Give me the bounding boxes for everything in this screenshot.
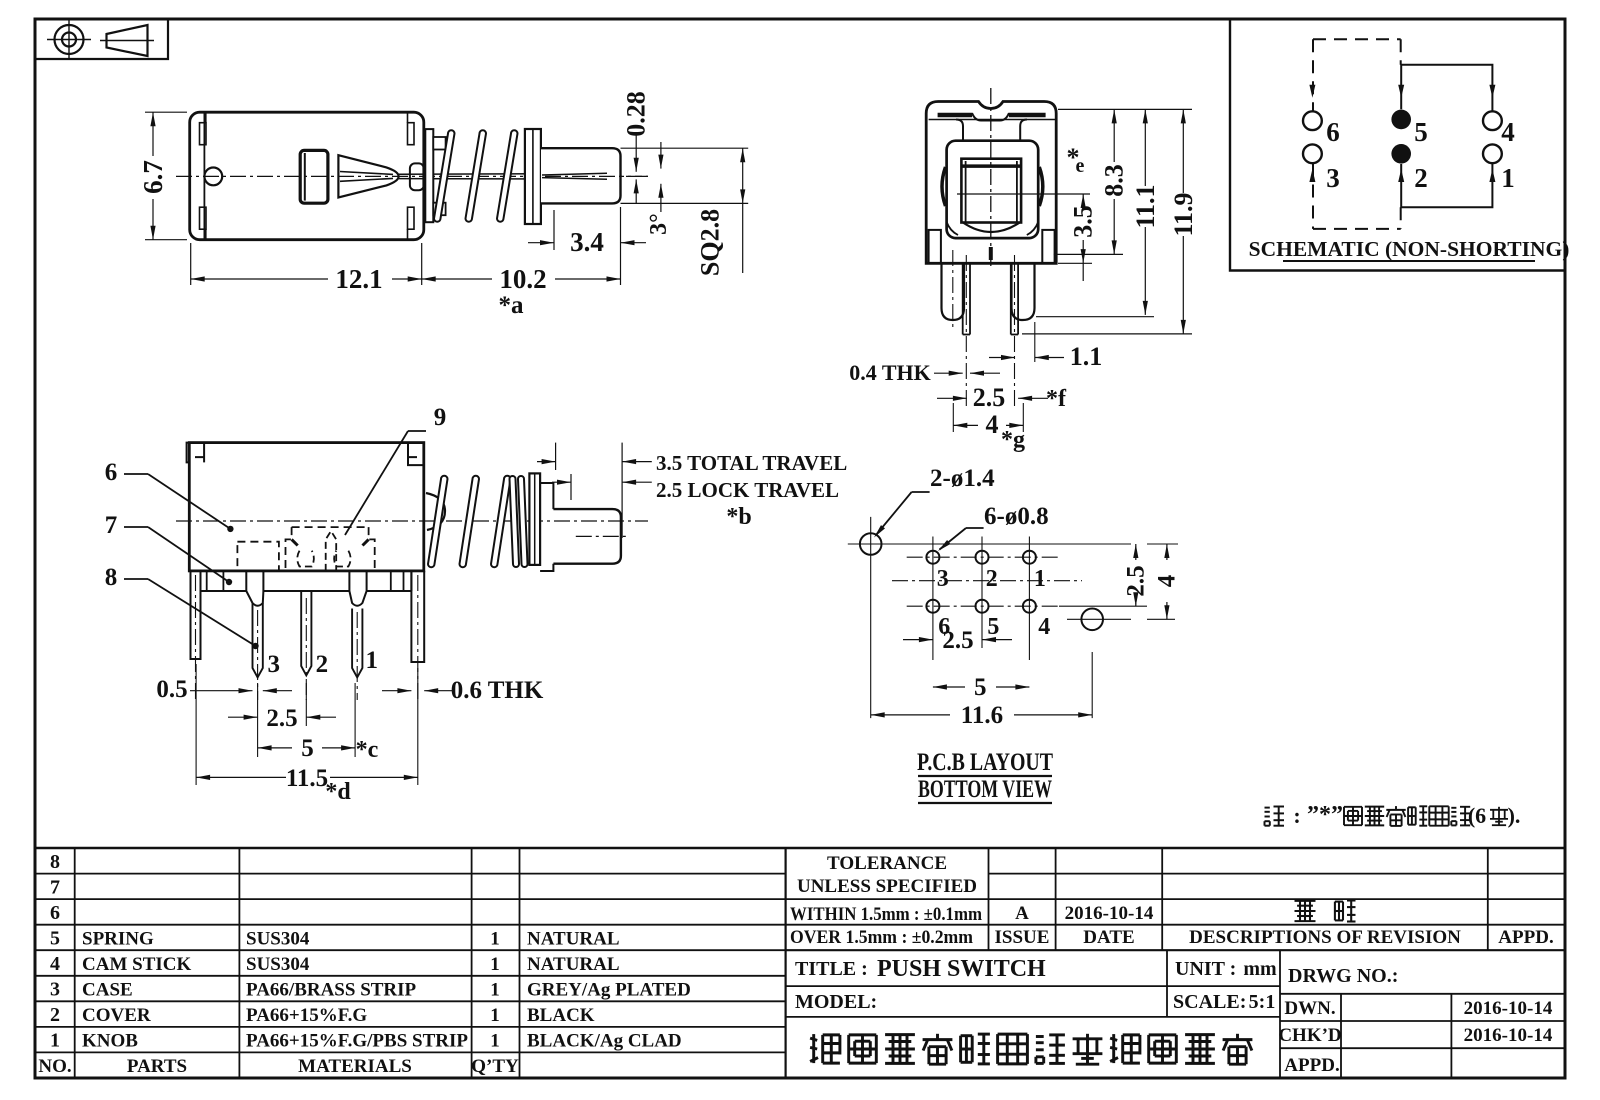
svg-text:*f: *f	[1046, 386, 1067, 412]
pcb: small holes row 2 (6,5,4)	[926, 600, 939, 613]
schematic dashed stem above pin 5	[1400, 39, 1402, 64]
svg-text:4: 4	[1501, 117, 1515, 147]
dim 11.5	[196, 776, 286, 778]
svg-text:GREY/Ag PLATED: GREY/Ag PLATED	[527, 980, 691, 1001]
svg-text:6: 6	[1326, 117, 1340, 147]
svg-text:2.5: 2.5	[973, 383, 1006, 412]
svg-text:A: A	[1015, 903, 1029, 924]
schematic wire pin5 to pin4 top	[1401, 65, 1492, 111]
dim 6.7 extension lines	[145, 111, 187, 113]
top view: shaft guide bracket	[410, 163, 424, 190]
side view: contact corner marks	[292, 539, 298, 545]
svg-text:(6: (6	[1468, 803, 1486, 828]
svg-text:e: e	[1076, 155, 1085, 177]
svg-text:mm: mm	[1243, 958, 1277, 980]
top view: case left wall line	[203, 112, 205, 240]
svg-text::: :	[1293, 803, 1300, 828]
pcb dim 5	[933, 686, 965, 688]
side view: top-left slot	[187, 443, 205, 463]
svg-text:3: 3	[50, 979, 60, 1001]
shaft top extension line	[621, 147, 749, 149]
pcb dim 4 vertical	[1166, 544, 1168, 560]
side view: right mounting post	[411, 571, 424, 662]
pcb dim 11.6	[871, 714, 950, 716]
svg-text:DRWG NO.:: DRWG NO.:	[1288, 965, 1398, 987]
dims below side view: extensions	[257, 683, 259, 757]
svg-text:0.4 THK: 0.4 THK	[849, 360, 931, 385]
dim 3.4 extension line	[553, 210, 555, 250]
dim 0.28 arrow lines	[635, 135, 637, 172]
front view: knob horizontal centerline	[957, 193, 1090, 195]
svg-text:*b: *b	[726, 504, 751, 530]
top view: cam stick needle lines	[399, 173, 607, 176]
svg-text:8: 8	[105, 564, 118, 591]
side view: hidden cam chamber dashed	[286, 527, 375, 571]
top view: cam stick cone	[338, 155, 398, 197]
top view: switch body case outline	[190, 112, 424, 240]
side view: pin 3	[253, 603, 263, 677]
schematic arrow into pin3	[1309, 169, 1315, 182]
pcb: row1 line	[907, 556, 1059, 558]
side view: foot at pin 1	[349, 571, 366, 606]
svg-text:2: 2	[1414, 163, 1428, 193]
svg-text:2016-10-14: 2016-10-14	[1464, 998, 1553, 1019]
svg-text:PARTS: PARTS	[127, 1056, 187, 1077]
svg-text:SCALE:: SCALE:	[1173, 991, 1246, 1013]
svg-text:DESCRIPTIONS OF REVISION: DESCRIPTIONS OF REVISION	[1189, 927, 1461, 948]
svg-text:ISSUE: ISSUE	[995, 927, 1050, 948]
svg-text:2.5 LOCK TRAVEL: 2.5 LOCK TRAVEL	[656, 478, 839, 502]
front view: bottom extension for 3.5	[1058, 262, 1092, 264]
svg-text:APPD.: APPD.	[1498, 927, 1553, 948]
svg-text:3°: 3°	[646, 213, 672, 235]
svg-text:PA66+15%F.G/PBS STRIP: PA66+15%F.G/PBS STRIP	[246, 1031, 468, 1052]
schematic pin 2 circle (filled)	[1391, 144, 1411, 164]
side view: foot at pin 3	[246, 571, 263, 606]
front view: top extension line	[1058, 108, 1192, 110]
svg-text:BLACK/Ag CLAD: BLACK/Ag CLAD	[527, 1031, 682, 1052]
schematic dashed switch body rectangle top edge	[1313, 38, 1401, 40]
top view: cam plate flange	[425, 129, 433, 222]
svg-text:”*”: ”*”	[1307, 802, 1343, 828]
schematic wire pin2 to pin1 bottom	[1401, 164, 1492, 208]
svg-text:3: 3	[1326, 163, 1340, 193]
schematic pin 5 circle (filled)	[1391, 110, 1411, 130]
side view: hidden contact dashed rect left	[237, 542, 279, 571]
dim SQ2.8 line	[742, 148, 744, 203]
front view: case side bulge arcs	[942, 167, 946, 206]
svg-text:1: 1	[490, 1005, 500, 1026]
side view: spring hook	[426, 493, 445, 530]
svg-text:3.5 TOTAL TRAVEL: 3.5 TOTAL TRAVEL	[656, 451, 847, 475]
svg-text:5: 5	[987, 614, 999, 640]
dim 3.5 total travel	[537, 461, 556, 463]
pcb: big hole left	[860, 533, 882, 555]
dim 10.2 line	[422, 278, 492, 280]
schematic arrow into pin6	[1309, 85, 1315, 98]
svg-text:CASE: CASE	[82, 980, 133, 1001]
dim 6.7 line	[152, 112, 154, 156]
unit/scale block	[1166, 950, 1168, 1017]
svg-text:BLACK: BLACK	[527, 1005, 595, 1026]
top view: spring coils	[434, 130, 455, 222]
side view: top-right slot	[408, 443, 424, 466]
dim 8.3 line	[1113, 109, 1115, 162]
svg-text:2016-10-14: 2016-10-14	[1065, 903, 1154, 924]
schematic arrow into pin4	[1489, 85, 1495, 98]
svg-text:7: 7	[50, 876, 60, 898]
dim 3.5 line (front)	[1082, 194, 1084, 205]
side view: knob (pushed)	[553, 509, 621, 564]
parts list row lines	[35, 873, 786, 875]
pcb: central dash-dot line	[892, 580, 1082, 582]
company name (hanzi)	[810, 1038, 817, 1040]
svg-text:10.2: 10.2	[499, 264, 546, 294]
top view: shaft centerline	[545, 175, 648, 177]
top view: corner slot top-left	[200, 123, 207, 145]
svg-text:*a: *a	[499, 292, 525, 319]
note: key dimension remark	[1265, 807, 1270, 809]
dim 4 line	[953, 424, 978, 426]
top view: horizontal centerline	[176, 175, 648, 177]
svg-text:9: 9	[434, 404, 447, 431]
svg-text:2: 2	[986, 566, 998, 592]
svg-text:*g: *g	[1001, 427, 1025, 453]
svg-text:KNOB: KNOB	[82, 1031, 138, 1052]
table outer edges	[35, 847, 1565, 849]
svg-text:MATERIALS: MATERIALS	[298, 1056, 412, 1077]
front view: body outline	[926, 102, 1056, 264]
pcb dim 2.5 horizontal	[903, 639, 933, 641]
front view: right pin	[1010, 263, 1012, 334]
projection symbol: cone side view	[107, 25, 148, 56]
schematic box	[1230, 19, 1565, 271]
dim 2.5 (pins)	[228, 716, 258, 718]
svg-text:5:1: 5:1	[1249, 991, 1276, 1013]
svg-text:12.1: 12.1	[335, 264, 382, 294]
svg-text:1: 1	[365, 647, 378, 674]
side view: spring stack right	[510, 476, 520, 567]
svg-text:0.6 THK: 0.6 THK	[451, 677, 544, 704]
dim 5 (pins)	[258, 747, 292, 749]
front view: right mounting tab	[1042, 230, 1054, 264]
top view: knob rectangle (part 9 cam)	[300, 150, 328, 203]
front view: cover top thick bar	[938, 113, 972, 118]
svg-text:6: 6	[50, 902, 60, 924]
svg-text:PA66/BRASS STRIP: PA66/BRASS STRIP	[246, 980, 417, 1001]
svg-text:11.9: 11.9	[1169, 192, 1198, 236]
pcb: big hole right	[1081, 609, 1103, 631]
front view: cover neck	[956, 120, 963, 141]
svg-text:2: 2	[50, 1004, 60, 1026]
svg-text:3.5: 3.5	[1069, 205, 1098, 238]
pcb: vertical col lines	[932, 537, 934, 661]
svg-text:2-ø1.4: 2-ø1.4	[930, 465, 995, 492]
svg-text:1: 1	[490, 1031, 500, 1052]
dim 1.1 line	[989, 357, 1015, 359]
front view: left leg	[942, 263, 965, 320]
svg-text:2.5: 2.5	[942, 627, 973, 654]
svg-text:2.5: 2.5	[1122, 565, 1149, 596]
svg-text:1: 1	[50, 1030, 60, 1052]
svg-text:MODEL:: MODEL:	[795, 991, 877, 1013]
svg-text:4: 4	[1038, 614, 1050, 640]
svg-text:PA66+15%F.G: PA66+15%F.G	[246, 1005, 367, 1026]
parts list column lines	[74, 848, 76, 1078]
dim 0.6 THK	[382, 690, 411, 692]
svg-text:NATURAL: NATURAL	[527, 954, 620, 975]
dim 8.3 bottom extension	[1054, 253, 1123, 255]
top view: corner slot bottom-left	[200, 207, 207, 229]
svg-text:4: 4	[986, 410, 999, 439]
schematic pin 1 circle	[1483, 144, 1502, 163]
svg-text:UNIT :: UNIT :	[1175, 958, 1236, 980]
schematic arrow into pin5	[1398, 85, 1404, 98]
pcb dim 2.5 vertical	[1135, 544, 1137, 560]
svg-text:CHK’D: CHK’D	[1278, 1025, 1341, 1046]
svg-text:3: 3	[268, 651, 281, 678]
front view: leg centerlines	[952, 250, 954, 330]
svg-text:SUS304: SUS304	[246, 954, 310, 975]
front view: left pin	[962, 263, 964, 334]
svg-text:1: 1	[1034, 566, 1046, 592]
top view: spring end washer disc	[525, 129, 541, 224]
svg-text:0.5: 0.5	[156, 676, 187, 703]
revision table lines	[989, 873, 1566, 875]
svg-text:5: 5	[1414, 117, 1428, 147]
side view: pin 1	[352, 609, 362, 678]
svg-text:3: 3	[937, 566, 949, 592]
dim 2.5 lock travel	[552, 481, 571, 483]
svg-text:1.1: 1.1	[1070, 342, 1103, 371]
schematic dashed rectangle bottom edge	[1313, 228, 1401, 230]
svg-text:11.5: 11.5	[286, 765, 328, 792]
svg-text:5: 5	[301, 735, 314, 762]
dim 3 deg arrow lines	[660, 142, 662, 169]
side view: hidden center pin dashed	[326, 531, 337, 571]
svg-text:APPD.: APPD.	[1284, 1055, 1339, 1076]
svg-text:2: 2	[316, 651, 329, 678]
svg-text:NO.: NO.	[38, 1056, 71, 1077]
dim 1.1 extension (leg right)	[1034, 322, 1036, 362]
dim 11.1 line	[1144, 109, 1146, 186]
top view: shaft slit taper lines	[542, 173, 607, 175]
travel dim extensions	[555, 443, 557, 470]
svg-text:3.4: 3.4	[570, 227, 604, 257]
svg-text:DWN.: DWN.	[1284, 998, 1335, 1019]
schematic pin 3 circle	[1303, 144, 1322, 163]
svg-text:11.1: 11.1	[1131, 184, 1160, 228]
side view: pin 2	[301, 591, 311, 675]
svg-text:11.6: 11.6	[961, 702, 1003, 729]
schematic arrow into pin1	[1489, 169, 1495, 182]
dim 0.4 THK line	[934, 372, 963, 374]
dim 12.1 extension lines	[190, 243, 192, 285]
svg-text:Q’TY: Q’TY	[471, 1056, 519, 1077]
svg-text:8.3: 8.3	[1100, 164, 1129, 197]
dim 11.9 line	[1182, 109, 1184, 193]
front view: vertical centerline	[990, 88, 992, 268]
schematic dashed stem below pin 3	[1312, 164, 1314, 229]
svg-text:COVER: COVER	[82, 1005, 151, 1026]
svg-text:4: 4	[50, 953, 60, 975]
revision description: first edition (hanzi)	[1295, 900, 1316, 902]
side view: base plate	[201, 571, 412, 591]
front view: right leg	[1012, 263, 1035, 320]
svg-text:6.7: 6.7	[138, 160, 168, 194]
svg-text:).: ).	[1508, 803, 1521, 828]
pcb: small holes row 1 (3,2,1)	[926, 551, 939, 564]
svg-text:2016-10-14: 2016-10-14	[1464, 1025, 1553, 1046]
svg-text:P.C.B LAYOUT: P.C.B LAYOUT	[917, 749, 1053, 776]
svg-text:7: 7	[105, 512, 118, 539]
shaft bottom extension line	[621, 202, 749, 204]
svg-text:1: 1	[1501, 163, 1515, 193]
side view: centerline	[176, 520, 648, 522]
svg-text:6-ø0.8: 6-ø0.8	[984, 503, 1049, 530]
front view: center pin stub	[989, 247, 993, 260]
svg-text:6: 6	[105, 459, 118, 486]
dim 3.4 line and arrows	[528, 242, 554, 244]
front view: cavity bottom arc	[963, 223, 1020, 233]
svg-text:1: 1	[490, 980, 500, 1001]
svg-text:SPRING: SPRING	[82, 929, 154, 950]
svg-text:1: 1	[490, 954, 500, 975]
dim 11.1 bottom extension (leg bottom)	[1036, 316, 1154, 318]
svg-text:0.28: 0.28	[622, 91, 651, 137]
front view: cover rounded square	[947, 141, 1039, 238]
front view: cover top line	[929, 119, 1056, 121]
svg-text:SQ2.8: SQ2.8	[696, 209, 725, 276]
top view: push shaft	[541, 148, 621, 203]
svg-text:*c: *c	[356, 737, 379, 763]
top view: corner slot bottom-right	[408, 207, 415, 229]
top view: corner slot top-right	[408, 123, 415, 145]
svg-text:TOLERANCE: TOLERANCE	[827, 853, 947, 874]
svg-text:CAM STICK: CAM STICK	[82, 954, 191, 975]
schematic dashed stem above pin 6	[1312, 39, 1314, 110]
schematic dashed stem below pin 2	[1400, 207, 1402, 229]
svg-text:BOTTOM VIEW: BOTTOM VIEW	[918, 776, 1052, 803]
svg-text:TITLE :: TITLE :	[795, 958, 868, 980]
projection symbol: circle view	[55, 25, 84, 54]
svg-text:DATE: DATE	[1083, 927, 1134, 948]
pcb: horizontal line through big left hole	[848, 543, 1131, 545]
svg-text:*d: *d	[325, 779, 351, 805]
side view: spring coils (compressed)	[428, 476, 448, 567]
side view: shaft step	[540, 483, 553, 571]
svg-text:NATURAL: NATURAL	[527, 929, 620, 950]
svg-text:2.5: 2.5	[266, 705, 297, 732]
pcb: line through big right hole	[1067, 618, 1131, 620]
side view: washer disc	[529, 473, 540, 565]
side view: left mounting post	[191, 571, 201, 659]
dim 10.2 extension line	[620, 207, 622, 285]
svg-text:4: 4	[1153, 574, 1180, 587]
front view: knob square window	[961, 159, 1021, 223]
front view: left mounting tab	[929, 230, 941, 264]
svg-text:WITHIN 1.5mm : ±0.1mm: WITHIN 1.5mm : ±0.1mm	[790, 905, 983, 925]
svg-text:5: 5	[50, 928, 60, 950]
dim 11.9 bottom extension (pin bottom)	[1022, 333, 1192, 335]
svg-text:SUS304: SUS304	[246, 929, 310, 950]
side view: hidden contact hooks dashed	[297, 551, 314, 567]
dim 2.5 line (front)	[937, 397, 967, 399]
svg-text:OVER 1.5mm : ±0.2mm: OVER 1.5mm : ±0.2mm	[790, 928, 974, 948]
svg-text:5: 5	[974, 674, 987, 701]
svg-text:PUSH SWITCH: PUSH SWITCH	[877, 956, 1046, 982]
first-angle projection symbol box	[35, 19, 168, 59]
schematic pin 4 circle	[1483, 111, 1502, 130]
svg-text:UNLESS SPECIFIED: UNLESS SPECIFIED	[797, 876, 977, 897]
top view: rivet hole circle	[204, 168, 222, 186]
dim 12.1 line	[191, 278, 328, 280]
dim 4 extensions	[952, 403, 954, 432]
schematic arrow into pin2	[1398, 169, 1404, 182]
svg-text:8: 8	[50, 851, 60, 873]
pcb: row2 line	[907, 605, 1059, 607]
svg-text:1: 1	[490, 929, 500, 950]
svg-text:SCHEMATIC (NON-SHORTING): SCHEMATIC (NON-SHORTING)	[1249, 237, 1570, 261]
side view: body outline	[189, 443, 423, 571]
schematic pin 6 circle	[1303, 111, 1322, 130]
